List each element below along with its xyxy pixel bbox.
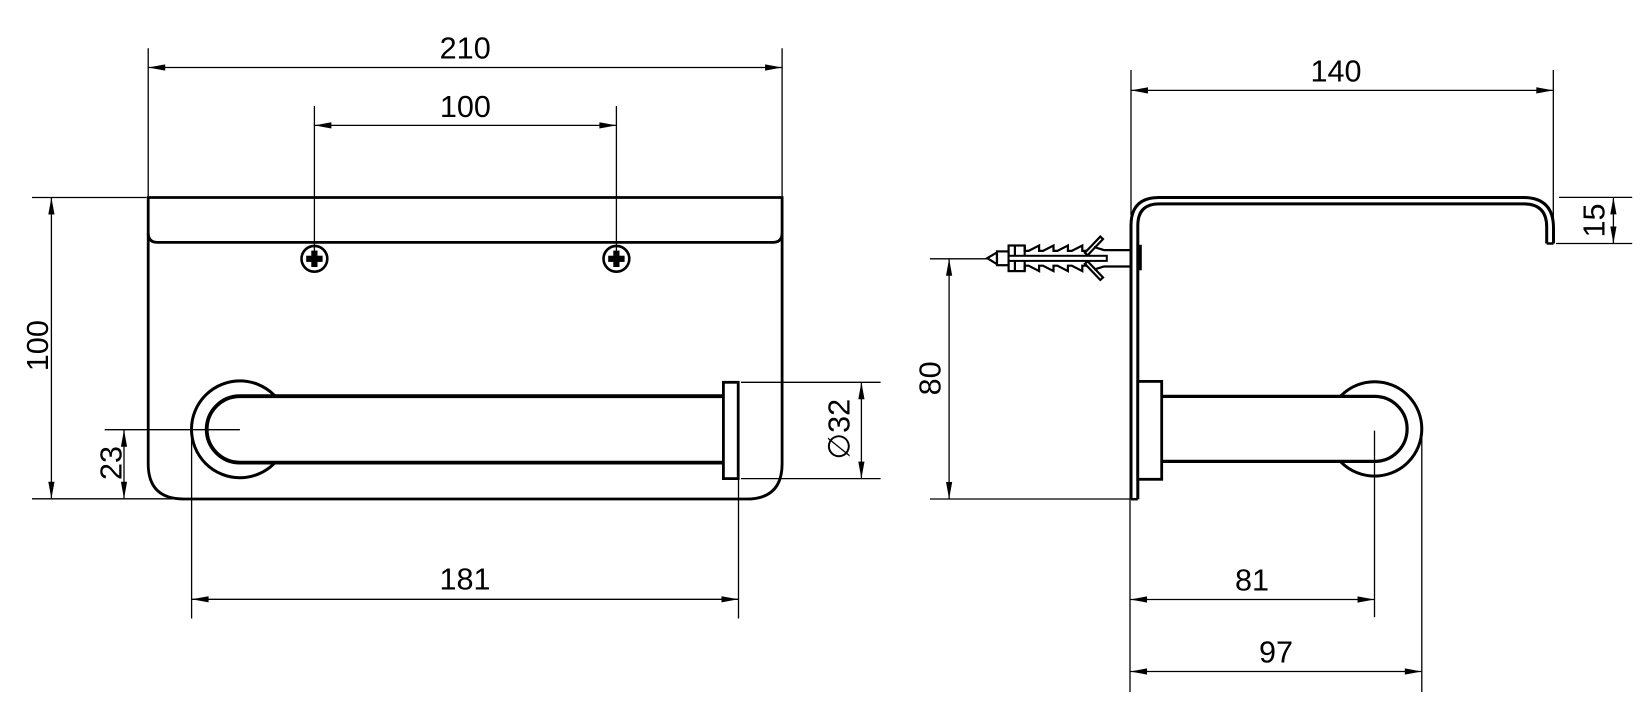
dimension 97	[1130, 433, 1422, 692]
roller flange circle left	[192, 381, 289, 478]
screw shaft	[1009, 256, 1107, 261]
roller end cap plate	[723, 382, 738, 478]
screw S1	[302, 246, 328, 272]
svg-text:140: 140	[1310, 55, 1361, 89]
dimension 181	[192, 430, 739, 619]
anchor wing top	[1085, 237, 1103, 256]
dimension 81	[1130, 431, 1375, 692]
dimension 140	[1131, 55, 1553, 226]
roller bar	[207, 396, 724, 462]
anchor teeth top	[1025, 245, 1097, 251]
svg-text:∅32: ∅32	[823, 399, 857, 460]
svg-text:23: 23	[95, 446, 129, 480]
screw shank	[997, 251, 1009, 265]
svg-text:15: 15	[1578, 203, 1612, 237]
svg-text:100: 100	[21, 320, 55, 371]
svg-text:100: 100	[440, 90, 491, 124]
profile inner line	[1138, 204, 1547, 499]
screw head	[1137, 245, 1142, 270]
plate bottom cap	[1131, 498, 1138, 501]
holder body outline	[148, 198, 782, 500]
svg-text:181: 181	[439, 563, 490, 597]
dimension 15	[1556, 197, 1632, 243]
roller flange circle side	[1327, 382, 1421, 476]
profile outer line	[1131, 198, 1554, 500]
roller bar side	[1162, 396, 1407, 461]
svg-text:81: 81	[1235, 564, 1269, 598]
shelf lip bottom edge	[148, 233, 782, 242]
dimension 100 screw spacing	[314, 90, 616, 252]
screw tip cone	[987, 252, 997, 264]
dimension diameter 32	[741, 382, 881, 478]
lip end cap	[1547, 242, 1554, 245]
dimension 80	[914, 259, 1131, 499]
screw S2	[604, 246, 630, 272]
anchor teeth bottom	[1025, 266, 1097, 272]
dimension 23	[95, 430, 240, 499]
anchor wing bottom	[1085, 261, 1103, 280]
roller cap side	[1138, 381, 1162, 479]
dimension 100 height	[21, 198, 194, 499]
anchor collar	[1009, 246, 1025, 272]
anchor collar inner line	[1014, 246, 1016, 272]
anchor neck top	[1094, 247, 1130, 250]
wall anchor	[987, 237, 1142, 280]
svg-text:80: 80	[914, 361, 948, 395]
svg-text:210: 210	[440, 32, 491, 66]
dimension 210	[148, 32, 782, 196]
svg-text:97: 97	[1259, 636, 1293, 670]
anchor neck bottom	[1094, 267, 1130, 270]
